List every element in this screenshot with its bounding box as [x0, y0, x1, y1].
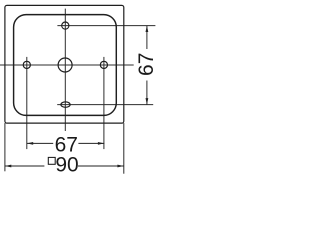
bottom dimension line 67 right segment — [78, 142, 104, 144]
90 dimension line right segment — [78, 165, 124, 167]
right dimension line 67 upper segment — [146, 26, 148, 49]
arrow right 90 dim — [117, 165, 123, 168]
square symbol of 90 label — [48, 157, 55, 164]
arrow right bottom 67 — [98, 142, 104, 145]
inner rounded square — [14, 15, 117, 116]
right extension line of 90 dim — [123, 123, 125, 174]
right dimension line 67 lower segment — [146, 81, 148, 105]
vertical centerline — [64, 9, 66, 131]
outer square plate outline — [5, 5, 124, 123]
left hole extension line — [26, 57, 28, 149]
bottom hole centerline extension — [57, 104, 153, 106]
arrow left 90 dim — [5, 165, 11, 168]
right hole — [100, 61, 107, 68]
right hole extension line — [103, 57, 105, 149]
top hole centerline extension — [57, 25, 155, 27]
arrow up right dim — [146, 26, 149, 32]
left hole — [23, 61, 30, 68]
center circle — [58, 58, 72, 72]
arrow left bottom 67 — [27, 142, 33, 145]
bottom dimension line 67 left segment — [27, 142, 53, 144]
svg-text:67: 67 — [135, 53, 158, 76]
bottom slot hole — [61, 102, 70, 107]
left extension line of 90 dim — [4, 123, 6, 171]
svg-text:90: 90 — [55, 154, 78, 177]
90 dimension line left segment — [5, 165, 45, 167]
top hole — [62, 22, 69, 29]
horizontal centerline — [0, 64, 134, 66]
arrow down right dim — [146, 98, 149, 104]
